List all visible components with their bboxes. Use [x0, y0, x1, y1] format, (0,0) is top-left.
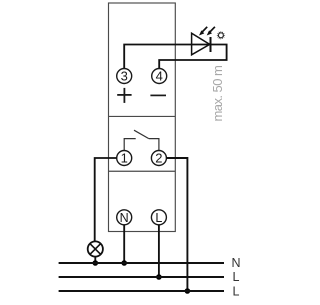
light arrow 1 [199, 27, 207, 36]
svg-text:max. 50 m: max. 50 m [210, 66, 225, 122]
wire terminal3 to LED anode [124, 45, 210, 70]
wire LED cathode to terminal4 [159, 45, 226, 70]
junction dot lamp [93, 260, 99, 266]
terminal 4 [152, 69, 167, 84]
wire terminal2 to line L2 [166, 158, 187, 291]
minus polarity mark [150, 94, 166, 96]
mains line L b [59, 290, 224, 292]
wire terminal N down [123, 225, 125, 263]
terminal 3 [117, 69, 132, 84]
plus polarity mark [117, 88, 131, 103]
wire terminal1 to lamp [95, 158, 117, 241]
terminal L [151, 210, 166, 225]
lamp E1 [88, 241, 103, 256]
junction dot N [121, 260, 127, 266]
switch S1 contacts [124, 139, 159, 151]
wire lamp to line N [94, 257, 96, 263]
cathode bar [210, 37, 212, 52]
svg-text:3: 3 [121, 69, 128, 84]
svg-text:N: N [120, 211, 129, 225]
mains line N [59, 262, 224, 264]
device enclosure box [109, 3, 176, 232]
terminal 1 [117, 151, 132, 166]
mains line L a [59, 276, 224, 278]
svg-text:2: 2 [155, 151, 162, 166]
svg-text:L: L [155, 211, 162, 225]
svg-text:4: 4 [156, 69, 163, 84]
LED D1 (photo sensor diode) [192, 33, 210, 55]
svg-text:L: L [233, 284, 240, 298]
terminal N [117, 210, 132, 225]
light arrow 2 [207, 27, 215, 36]
terminal 2 [151, 151, 166, 166]
wire terminal L down [158, 225, 160, 277]
svg-text:L: L [233, 270, 240, 284]
switch S1 blade [134, 130, 149, 138]
svg-text:1: 1 [121, 151, 128, 166]
sun symbol [217, 31, 226, 40]
junction dot terminal2 wire [185, 288, 191, 294]
junction dot L [156, 274, 162, 280]
svg-text:N: N [232, 256, 241, 270]
